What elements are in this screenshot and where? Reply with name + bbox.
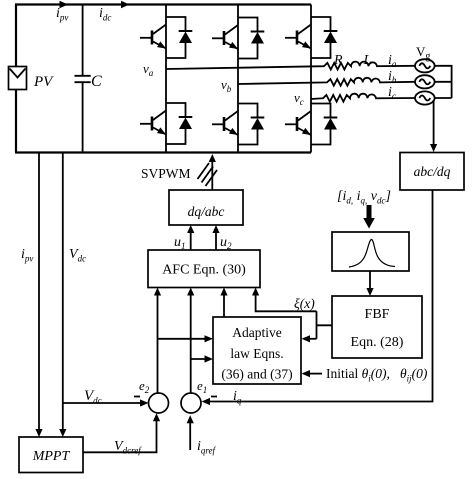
wire left vertical (PV branch): [15, 5, 17, 153]
svg-text:va: va: [143, 61, 154, 78]
svg-text:AFC Eqn. (30): AFC Eqn. (30): [162, 263, 246, 278]
wire i_qref arrow into e1: [189, 420, 191, 451]
summing junction e1: [181, 393, 201, 413]
wire V_dc branch to e2: [63, 402, 145, 404]
svg-text:SVPWM: SVPWM: [141, 166, 191, 181]
diode D4 (leg b bottom): [238, 104, 264, 145]
wire V_dcref from MPPT to e2: [83, 418, 157, 453]
block MPPT: [19, 437, 83, 473]
wire phase c with resistor and inductor: [311, 94, 415, 102]
svg-text:(36) and (37): (36) and (37): [221, 367, 292, 382]
svg-text:Vdc: Vdc: [84, 388, 102, 406]
transistor Q6 (leg c bottom IGBT): [285, 111, 311, 135]
svg-text:law Eqns.: law Eqns.: [230, 346, 283, 361]
svg-text:PV: PV: [33, 74, 54, 90]
diode D2 (leg a bottom): [166, 103, 192, 144]
wire inverter leg a: [165, 5, 167, 153]
svg-text:Vdc: Vdc: [69, 247, 86, 264]
wire bottom DC bus: [15, 151, 311, 153]
wire xi(x) to adaptive law block: [306, 338, 317, 340]
SVPWM hash marks: [198, 163, 218, 186]
wire xi(x) from FBF output: [317, 311, 333, 339]
wire u1 arrow AFC to dq/abc: [190, 229, 192, 250]
svg-text:FBF: FBF: [365, 307, 390, 322]
wire e1 branch to adaptive law: [191, 358, 210, 360]
svg-text:ipv: ipv: [21, 247, 33, 264]
svg-text:ic: ic: [388, 85, 396, 101]
block dq/abc: [169, 190, 243, 225]
svg-text:ipv: ipv: [56, 6, 68, 23]
svg-text:R: R: [333, 53, 343, 68]
transistor Q5 (leg c top IGBT): [285, 25, 311, 49]
svg-text:dq/abc: dq/abc: [188, 204, 225, 219]
svg-text:[id, iq, vdc]: [id, iq, vdc]: [337, 189, 391, 206]
block Adaptive law Eqns. (36) and (37): [213, 317, 301, 384]
transistor Q1 (leg a top IGBT): [140, 25, 166, 49]
label minus at e1 right: [211, 396, 217, 398]
wire e1 output up to AFC: [190, 292, 192, 393]
wire capacitor branch: [82, 5, 84, 153]
diode D1 (leg a top): [166, 17, 192, 58]
wire u2 arrow AFC to dq/abc: [215, 229, 217, 250]
summing junction e2: [149, 393, 169, 413]
svg-text:vc: vc: [294, 90, 304, 107]
wire top DC bus: [15, 3, 311, 5]
wire e2 branch to adaptive law: [158, 338, 210, 340]
svg-text:C: C: [91, 73, 102, 90]
wire xi(x) to AFC block: [256, 292, 317, 311]
svg-text:iqref: iqref: [197, 439, 217, 456]
AC source vg phase b: [415, 75, 435, 88]
wire SVPWM arrow dq/abc to inverter: [211, 159, 213, 191]
svg-text:u2: u2: [220, 235, 232, 251]
wire adaptive law output up to AFC: [223, 292, 225, 317]
current arrow i_dc on top bus: [121, 1, 130, 8]
wire grid measurement tap to abc/dq: [433, 100, 435, 147]
svg-text:Initial θi(0), θij(0): Initial θi(0), θij(0): [326, 366, 428, 384]
block AFC Eqn. (30): [148, 250, 260, 288]
svg-text:Adaptive: Adaptive: [232, 325, 282, 340]
svg-text:e1: e1: [197, 378, 207, 395]
svg-text:MPPT: MPPT: [32, 449, 71, 464]
wire sense line V_dc down to MPPT: [62, 153, 64, 433]
block abc/dq: [400, 153, 464, 191]
svg-text:idc: idc: [99, 6, 111, 23]
diode D5 (leg c top): [311, 17, 337, 58]
AC source vg phase c: [415, 91, 435, 104]
diode D6 (leg c bottom): [311, 104, 337, 145]
wire e2 output up to AFC: [157, 292, 159, 393]
svg-text:abc/dq: abc/dq: [414, 164, 451, 179]
svg-text:iq: iq: [233, 389, 242, 406]
current arrow i_pv on top bus: [60, 1, 69, 8]
svg-text:vb: vb: [221, 77, 232, 94]
svg-text:L: L: [363, 53, 372, 68]
wire phase b with resistor and inductor: [238, 78, 415, 86]
capacitor C: [75, 76, 91, 82]
thick arrow into membership function block: [363, 205, 375, 229]
wire membership block to FBF: [369, 271, 371, 291]
wire initial values into adaptive law block: [306, 373, 322, 375]
wire inverter leg c: [310, 5, 312, 153]
block FBF Eqn. (28): [332, 296, 422, 358]
wire sense line i_pv down to MPPT: [38, 153, 40, 433]
AC source vg phase a: [415, 59, 435, 72]
transistor Q4 (leg b bottom IGBT): [212, 111, 238, 135]
diode D3 (leg b top): [238, 18, 264, 59]
wire phase a with resistor R and inductor L: [166, 62, 415, 70]
transistor Q3 (leg b top IGBT): [212, 25, 238, 49]
svg-text:Vdcref: Vdcref: [114, 439, 142, 456]
PV panel symbol: [9, 67, 27, 90]
transistor Q2 (leg a bottom IGBT): [140, 111, 166, 135]
svg-text:Eqn. (28): Eqn. (28): [351, 335, 404, 350]
svg-text:ia: ia: [388, 53, 397, 69]
wire grid right bus: [435, 66, 452, 98]
label minus at e2 left: [134, 396, 140, 398]
block Gaussian membership function: [332, 232, 409, 271]
svg-text:u1: u1: [174, 235, 186, 251]
wire abc/dq output down to e1 (iq feedback): [205, 190, 433, 402]
svg-text:e2: e2: [139, 378, 150, 395]
svg-text:ib: ib: [388, 69, 397, 85]
svg-text:ξ(x): ξ(x): [294, 296, 315, 311]
wire inverter leg b: [237, 5, 239, 153]
